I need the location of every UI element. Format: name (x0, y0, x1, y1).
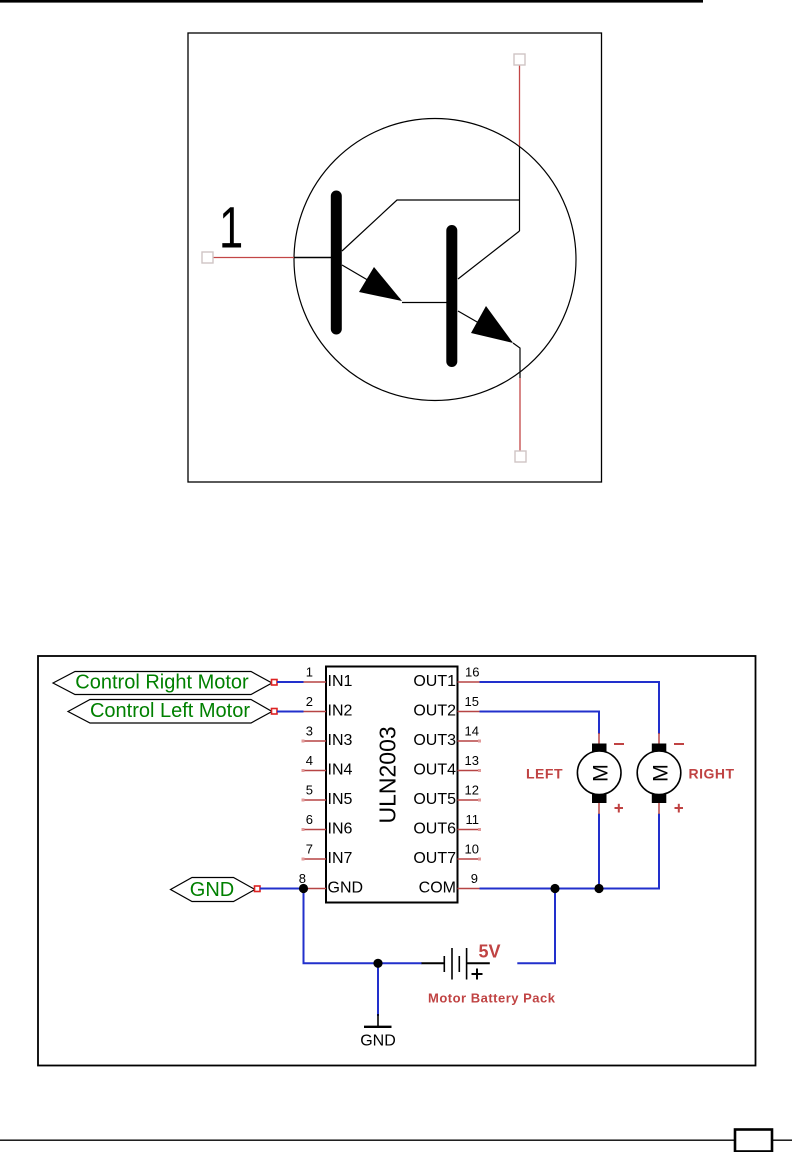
svg-text:6: 6 (306, 812, 313, 827)
svg-text:10: 10 (465, 842, 479, 857)
svg-text:GND: GND (328, 880, 364, 897)
svg-text:OUT2: OUT2 (413, 703, 456, 720)
svg-text:5V: 5V (479, 942, 501, 962)
svg-text:OUT4: OUT4 (413, 762, 456, 779)
svg-text:3: 3 (306, 724, 313, 739)
svg-text:IN5: IN5 (328, 791, 353, 808)
svg-text:OUT1: OUT1 (413, 673, 456, 690)
svg-text:OUT3: OUT3 (413, 732, 456, 749)
svg-text:M: M (589, 764, 613, 782)
svg-text:ULN2003: ULN2003 (375, 726, 401, 823)
svg-text:7: 7 (306, 842, 313, 857)
svg-text:8: 8 (299, 871, 306, 886)
svg-text:COM: COM (419, 880, 456, 897)
svg-text:15: 15 (465, 694, 479, 709)
svg-text:M: M (649, 764, 673, 782)
svg-text:OUT5: OUT5 (413, 791, 456, 808)
svg-text:13: 13 (465, 753, 479, 768)
svg-text:16: 16 (465, 665, 479, 680)
svg-text:1: 1 (306, 665, 313, 680)
svg-text:12: 12 (465, 783, 479, 798)
svg-text:Control Right Motor: Control Right Motor (75, 672, 249, 694)
svg-text:9: 9 (471, 871, 478, 886)
svg-text:GND: GND (190, 879, 234, 901)
svg-text:11: 11 (466, 812, 480, 827)
svg-text:IN4: IN4 (328, 762, 353, 779)
svg-text:IN7: IN7 (328, 850, 353, 867)
svg-text:Motor Battery Pack: Motor Battery Pack (428, 991, 556, 1006)
svg-text:IN2: IN2 (328, 703, 353, 720)
svg-text:OUT6: OUT6 (413, 821, 456, 838)
svg-text:LEFT: LEFT (526, 766, 563, 782)
svg-text:IN6: IN6 (328, 821, 353, 838)
svg-text:OUT7: OUT7 (413, 850, 456, 867)
svg-text:14: 14 (465, 724, 479, 739)
svg-text:4: 4 (306, 753, 313, 768)
svg-text:RIGHT: RIGHT (689, 766, 735, 782)
svg-text:IN1: IN1 (328, 673, 353, 690)
svg-text:IN3: IN3 (328, 732, 353, 749)
svg-text:Control Left Motor: Control Left Motor (90, 700, 250, 722)
svg-text:GND: GND (360, 1033, 396, 1050)
svg-text:5: 5 (306, 783, 313, 798)
svg-text:1: 1 (219, 195, 243, 259)
svg-text:2: 2 (306, 694, 313, 709)
